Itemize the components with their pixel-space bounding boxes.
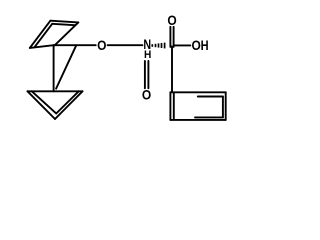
wire phenyl top outer [170, 91, 225, 93]
wire N=O double bond line 2 [147, 61, 149, 88]
wire C=O double bond line 2 [173, 27, 175, 47]
svg-text:O: O [192, 37, 201, 53]
wire edge A-B outer [30, 21, 51, 48]
wire edge T2-T3 outer [55, 91, 83, 119]
wire O-N bond [108, 44, 143, 46]
wire C9 to lower ring vertical [53, 45, 55, 91]
wire edge T1-T3 outer [28, 91, 56, 119]
wire phenyl left inner [173, 93, 175, 119]
ring benzo-B (collapsed triangle) [28, 91, 83, 119]
wire J2 to lower ring diagonal [56, 45, 76, 88]
wire C=O double bond line 1 [169, 27, 171, 47]
wire edge B-C outer [50, 21, 78, 23]
wire phenyl left outer [169, 92, 171, 120]
ring benzo-A (collapsed parallelogram) [30, 21, 79, 48]
wire N=O double bond line 1 [144, 61, 146, 88]
svg-text:O: O [97, 37, 106, 53]
wire phenyl bottom inner [195, 116, 223, 118]
hashed wedge N to C-alpha [152, 43, 164, 49]
wire phenyl top inner [198, 96, 223, 98]
wire edge A-B inner [34, 24, 52, 48]
wire phenyl right inner [222, 97, 224, 118]
svg-text:O: O [167, 12, 176, 28]
svg-text:O: O [142, 87, 151, 103]
wire inner double V [32, 91, 79, 113]
wire edge C-J1 [55, 22, 79, 45]
ring phenyl (collapsed rectangle) [170, 92, 225, 120]
wire phenyl bottom outer [170, 119, 225, 121]
wire C9 to O horizontal [54, 44, 96, 46]
wire C-OH bond [174, 44, 190, 46]
wire edge B-C inner [52, 24, 75, 25]
svg-text:H: H [144, 49, 151, 61]
wire edge J1-A [30, 45, 54, 48]
wire edge T1-T2 top [28, 90, 83, 92]
wire C-CH2 bond down [171, 46, 173, 92]
svg-text:H: H [201, 38, 209, 53]
wire phenyl right outer [225, 92, 227, 120]
